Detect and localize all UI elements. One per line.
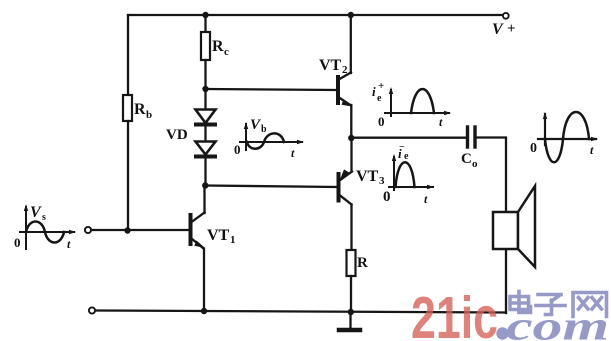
svg-text:R: R (212, 38, 224, 55)
label R (357, 255, 368, 271)
capacitor Co (468, 127, 476, 147)
diode VD1 (196, 110, 216, 125)
label Vb (234, 117, 295, 160)
label V+ (492, 21, 516, 38)
node junction top rail / VT2 collector (348, 12, 354, 18)
label Rb (134, 101, 152, 121)
svg-text:+: + (378, 80, 384, 92)
waveform inset ie- (389, 154, 434, 190)
svg-text:t: t (424, 192, 428, 206)
wire node down to VT1 collector (203, 186, 205, 214)
label ie+ (372, 80, 443, 129)
wire Rb bottom to input node (127, 121, 129, 231)
svg-text:−: − (399, 142, 405, 153)
svg-text:o: o (472, 158, 478, 170)
wire node to VT3 base (206, 186, 338, 188)
transistor VT2 (338, 73, 352, 107)
svg-text:+: + (507, 21, 516, 37)
wire VT2 emitter down to output node (350, 105, 352, 138)
watermark 电 (510, 292, 531, 313)
svg-text:V: V (492, 21, 504, 38)
svg-text:0: 0 (234, 142, 241, 157)
wire input to VT1 base (92, 229, 190, 231)
wire R bottom to ground rail (350, 276, 352, 311)
wire VT2 collector up to rail (350, 15, 352, 73)
terminal input top (85, 227, 91, 233)
svg-text:VT: VT (207, 227, 230, 244)
svg-text:s: s (42, 212, 46, 223)
svg-text:b: b (261, 124, 267, 135)
node junction VT1 emitter / bottom rail (201, 308, 207, 314)
svg-text:C: C (461, 151, 472, 167)
resistor R (347, 250, 356, 276)
svg-text:t: t (590, 143, 594, 157)
svg-text:0: 0 (14, 235, 21, 250)
node junction R / ground (348, 309, 354, 315)
svg-text:1: 1 (230, 234, 236, 246)
wire VT1 emitter down to bottom rail (203, 249, 205, 312)
label Co (461, 151, 478, 170)
svg-text:V: V (30, 204, 42, 221)
svg-text:0: 0 (383, 189, 391, 205)
speaker LS (493, 186, 535, 267)
node junction top rail / Rc (202, 12, 208, 18)
transistor VT3 (339, 169, 353, 204)
label VD (166, 127, 188, 143)
svg-text:0: 0 (378, 114, 385, 129)
svg-text:R: R (134, 101, 146, 118)
svg-text:21ic: 21ic (411, 285, 498, 341)
waveform inset output (538, 112, 598, 162)
svg-text:c: c (224, 46, 229, 58)
terminal input bottom (89, 307, 95, 313)
svg-text:VD: VD (166, 127, 188, 143)
wire VT3 emitter up to output node (350, 138, 352, 172)
label VT1 (207, 227, 236, 246)
node junction input/Rb (124, 227, 130, 233)
wire output node to Co (351, 137, 465, 139)
waveform inset ie+ (385, 87, 451, 116)
node junction VT3 base / VT1 collector (202, 182, 208, 188)
watermark dot (496, 327, 508, 339)
svg-text:t: t (291, 146, 295, 160)
wire bottom rail (96, 311, 507, 313)
transistor VT1 (191, 213, 206, 249)
diode VD2 (196, 142, 216, 157)
wire VD2 to VT3 base node (204, 158, 206, 186)
waveform inset Vs (20, 204, 76, 249)
label ie- (383, 142, 428, 206)
node junction diode / VT2 base (202, 86, 208, 92)
watermark 子 (536, 295, 565, 315)
node junction output (348, 135, 354, 141)
wire node to VT2 base (206, 89, 337, 90)
wire between diodes (204, 126, 206, 141)
label Rc (212, 38, 229, 58)
svg-text:e: e (404, 151, 409, 162)
svg-text:t: t (439, 115, 443, 129)
label VT2 (319, 57, 348, 76)
watermark 网 (573, 293, 607, 317)
wire mid vertical rail to Rc (204, 15, 206, 32)
svg-text:i: i (372, 84, 376, 99)
terminal V+ (503, 13, 509, 19)
label Vs (14, 204, 71, 251)
svg-text:VT: VT (319, 57, 342, 74)
svg-text:R: R (357, 255, 368, 271)
ground (339, 312, 360, 330)
wire Co to speaker corner (477, 138, 506, 314)
resistor Rc (201, 32, 210, 60)
svg-text:t: t (67, 237, 71, 251)
svg-text:e: e (377, 93, 382, 104)
svg-text:VT: VT (356, 168, 379, 185)
wire left vertical from top rail to Rb (127, 15, 129, 95)
svg-text:0: 0 (530, 141, 537, 156)
svg-text:3: 3 (379, 175, 385, 187)
svg-text:b: b (146, 109, 152, 121)
svg-text:com: com (506, 303, 609, 341)
svg-text:2: 2 (342, 64, 348, 76)
wire Rc bottom to diode node (204, 60, 206, 109)
resistor Rb (123, 95, 132, 121)
label output axes (530, 141, 594, 157)
label VT3 (356, 168, 385, 187)
wire VT3 collector down to R (350, 205, 352, 251)
watermark 21ic (411, 285, 609, 341)
wire top rail V+ (128, 14, 502, 16)
waveform inset Vb (240, 122, 304, 150)
